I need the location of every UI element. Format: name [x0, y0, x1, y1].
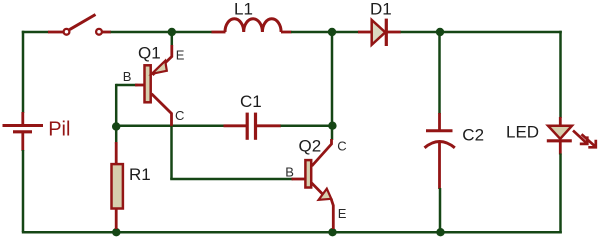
transistor Q2 collector lead — [312, 139, 332, 166]
wire right rail upper green — [559, 31, 562, 118]
resistor R1 bottom lead — [115, 209, 118, 229]
wire top rail left segment — [22, 31, 49, 34]
capacitor C1 lead left — [224, 124, 248, 127]
capacitor C1 lead right — [256, 124, 282, 127]
node junction bottom C2 — [436, 228, 444, 236]
svg-text:R1: R1 — [129, 165, 151, 184]
wire base node vertical (Q1 base to junction) — [115, 84, 118, 144]
battery Pil negative lead — [21, 132, 24, 151]
LED triangle — [548, 126, 572, 139]
capacitor C2 straight plate — [426, 129, 453, 132]
capacitor C2 bottom lead red — [438, 141, 441, 190]
svg-text:B: B — [123, 69, 132, 84]
transistor Q2 emitter lead upper — [312, 183, 323, 194]
svg-text:C2: C2 — [462, 126, 484, 145]
switch SW lead left — [48, 31, 63, 34]
capacitor C2 top lead red — [438, 113, 441, 131]
node junction top emitter Q1 — [168, 28, 176, 36]
switch lead right — [102, 31, 111, 34]
wire vertical top junction to mid junction — [331, 32, 334, 140]
node junction bottom Q2 emitter — [328, 228, 336, 236]
svg-text:E: E — [176, 48, 185, 63]
transistor Q1 emitter lead red — [153, 45, 172, 75]
wire left rail lower — [22, 150, 25, 232]
battery Pil short plate — [13, 130, 32, 133]
switch throw circle — [96, 29, 102, 35]
transistor Q1 collector lead — [152, 94, 172, 127]
LED emission arrow 2 — [582, 134, 596, 146]
LED anode lead red — [559, 117, 562, 127]
svg-text:LED: LED — [506, 123, 539, 142]
diode D1 cathode lead — [388, 31, 401, 34]
capacitor C1 plate right — [254, 113, 257, 140]
battery Pil positive lead — [21, 112, 24, 126]
wire top rail L1 to D1 — [291, 31, 359, 34]
wire mid vertical down to Q2 base row — [170, 126, 173, 179]
switch lever — [70, 15, 96, 30]
svg-text:D1: D1 — [370, 0, 392, 19]
diode D1 anode lead — [358, 31, 372, 34]
inductor L1 coil — [225, 19, 281, 32]
transistor Q2 base lead red stub — [292, 178, 306, 181]
battery Pil long plate — [3, 124, 44, 127]
wire C1 right to mid junction — [281, 125, 333, 128]
transistor Q2 emitter lead lower — [331, 199, 333, 230]
transistor Q1 body bar — [145, 65, 151, 102]
wire bottom rail — [22, 231, 562, 234]
svg-text:L1: L1 — [234, 0, 253, 19]
capacitor C2 curved plate — [425, 142, 455, 148]
wire C2 branch vertical green upper — [438, 32, 441, 114]
diode D1 triangle — [372, 20, 386, 45]
capacitor C1 plate left — [246, 113, 249, 140]
svg-text:C: C — [175, 108, 184, 123]
diode D1 cathode bar — [385, 19, 388, 46]
node junction left (base/R1/C1 wire) — [112, 122, 120, 130]
transistor Q1 emitter wire green top — [171, 32, 174, 46]
inductor L1 lead right — [281, 31, 292, 34]
svg-text:E: E — [338, 206, 347, 221]
wire C2 branch vertical green lower — [439, 188, 442, 232]
transistor Q1 base lead red stub — [135, 84, 144, 87]
inductor L1 lead left — [212, 31, 226, 34]
svg-text:C1: C1 — [240, 92, 262, 111]
LED cathode bar — [547, 139, 572, 142]
transistor Q1 emitter arrow (PNP into base) — [152, 61, 167, 74]
svg-text:Q2: Q2 — [299, 137, 322, 156]
svg-text:B: B — [285, 165, 294, 180]
wire Q1 base horizontal green — [116, 84, 137, 87]
LED cathode lead red — [559, 141, 562, 155]
wire right rail lower green — [559, 154, 562, 234]
svg-text:Pil: Pil — [48, 119, 70, 141]
wire top rail D1 to right corner — [401, 31, 562, 34]
node junction top C2 branch — [436, 28, 444, 36]
resistor R1 top lead — [115, 142, 118, 164]
wire top rail to L1 — [111, 31, 213, 34]
node junction mid (C1/Q2 collector) — [328, 122, 336, 130]
svg-text:C: C — [337, 139, 346, 154]
wire horizontal junction to C1 — [116, 125, 224, 128]
transistor Q2 body bar — [305, 160, 311, 187]
transistor Q2 emitter arrow (NPN outward) — [319, 189, 332, 200]
node junction bottom R1 — [112, 228, 120, 236]
switch pole circle — [64, 29, 70, 35]
wire Q2 base horizontal — [170, 178, 293, 181]
node junction top C1/Q2 branch — [328, 28, 336, 36]
svg-text:Q1: Q1 — [138, 43, 161, 62]
LED emission arrow 1 — [573, 131, 587, 144]
wire left rail upper — [22, 31, 25, 113]
resistor R1 body — [112, 164, 123, 208]
